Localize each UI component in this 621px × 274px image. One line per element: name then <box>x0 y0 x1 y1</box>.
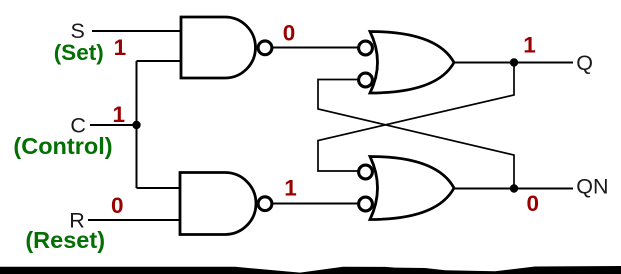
svg-text:1: 1 <box>114 35 127 60</box>
svg-text:Q: Q <box>576 51 593 75</box>
svg-text:(Control): (Control) <box>13 133 112 159</box>
svg-text:1: 1 <box>112 102 125 127</box>
svg-text:(Set): (Set) <box>54 40 104 65</box>
svg-text:0: 0 <box>526 191 539 216</box>
svg-text:(Reset): (Reset) <box>25 227 105 253</box>
svg-text:1: 1 <box>523 33 536 58</box>
svg-text:0: 0 <box>283 21 296 46</box>
svg-text:1: 1 <box>284 176 297 201</box>
svg-text:0: 0 <box>111 193 124 218</box>
svg-text:QN: QN <box>576 174 608 198</box>
